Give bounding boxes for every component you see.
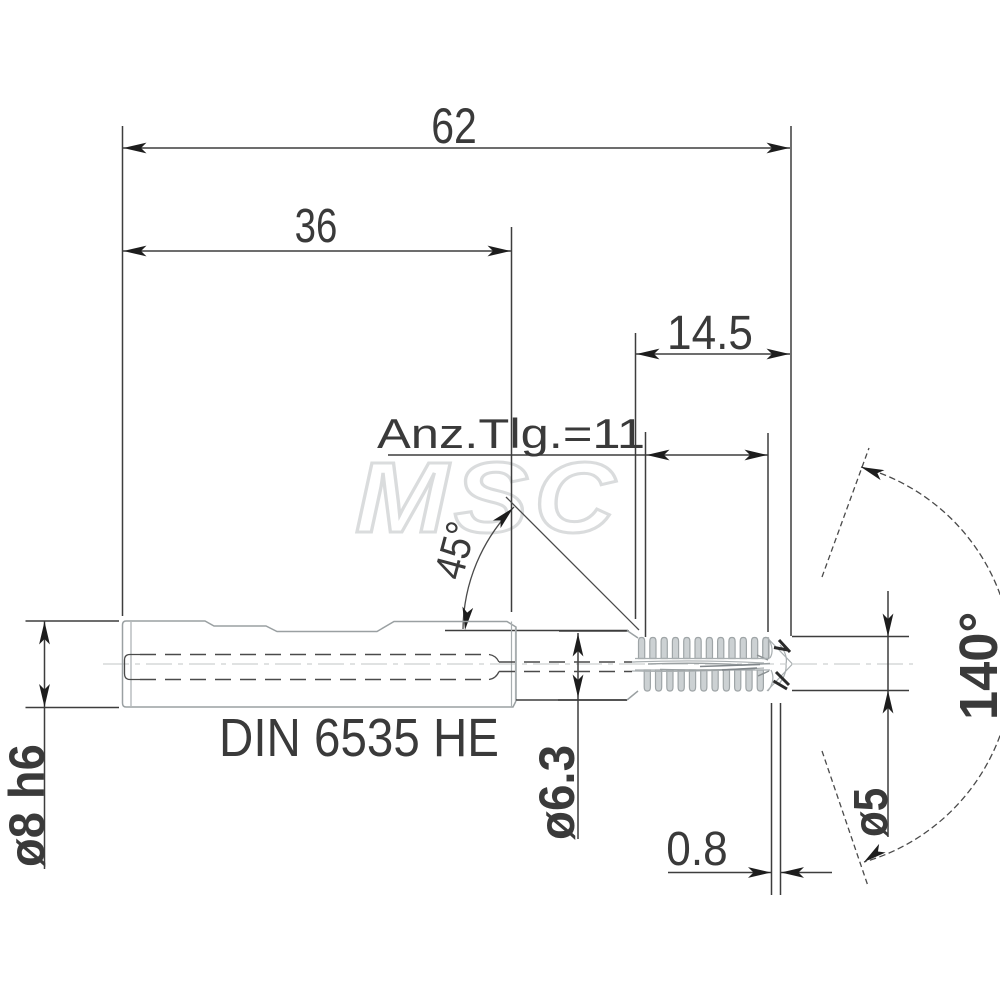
svg-text:140°: 140°	[949, 612, 1000, 720]
dia6.3 extension bottom (also neck bottom edge)	[558, 699, 627, 701]
tip cone bottom edge	[767, 665, 792, 692]
arrowhead 140 arc top	[859, 462, 884, 480]
dim 0.8 line left segment	[668, 872, 772, 874]
dim 62 extension line right	[790, 126, 792, 636]
dim 36 line	[123, 250, 511, 252]
dia5 extension top	[792, 636, 909, 638]
svg-text:36: 36	[295, 200, 338, 253]
dia5 dimension line	[887, 591, 889, 837]
tip cone top edge	[767, 638, 792, 664]
arrowhead dia5 bottom pointing up	[883, 691, 894, 714]
thread root bottom line	[635, 669, 770, 671]
svg-text:ø6.3: ø6.3	[530, 745, 585, 840]
svg-text:ø5: ø5	[843, 788, 897, 837]
thread mid darker detail	[648, 663, 770, 670]
coolant hole taper	[489, 655, 499, 680]
thread teeth top row	[639, 638, 770, 659]
thread start chamfer top	[627, 631, 638, 639]
svg-text:0.8: 0.8	[666, 821, 727, 875]
Anz.Tlg.=11 dimension line with underline	[388, 454, 768, 456]
Anz.Tlg.=11 extension line left	[645, 432, 647, 637]
thread teeth bottom row	[644, 670, 763, 691]
centerline	[103, 663, 913, 665]
dim 14.5 line	[636, 353, 790, 355]
arrowhead dia6.3 down	[573, 675, 584, 698]
45deg reference line and neck top edge	[445, 630, 628, 632]
neck bottom edge	[516, 699, 627, 701]
45deg arc	[463, 507, 514, 629]
tip cross marks	[774, 640, 791, 689]
shank neck relief lines	[512, 622, 516, 708]
dia8h6 dimension line	[44, 621, 46, 869]
arrowhead dia8 down	[39, 684, 50, 707]
140deg arc	[861, 467, 1000, 862]
arrowhead dia5 top pointing down	[883, 614, 894, 637]
shank outline	[123, 621, 517, 707]
svg-text:DIN 6535 HE: DIN 6535 HE	[219, 708, 499, 768]
dim 36 extension line right	[511, 227, 513, 612]
dia8h6 extension bottom	[26, 707, 120, 709]
coolant channel dashed top	[499, 661, 632, 663]
arrowhead 62 right	[767, 143, 790, 154]
thread root top line	[635, 658, 768, 660]
dia8h6 extension top	[26, 620, 120, 622]
thread last partial tooth top	[763, 638, 769, 659]
dim 0.8 line right segment	[781, 872, 833, 874]
arrowhead dia8 up	[39, 622, 50, 645]
dim 0.8 extension line right	[780, 703, 782, 895]
shank end chamfer line	[130, 622, 132, 706]
dim 62 extension line left	[122, 126, 124, 616]
arrowhead 45 arc bottom	[460, 607, 474, 631]
140deg leg top	[822, 448, 869, 577]
arrowhead 14.5 right	[767, 349, 790, 360]
arrowhead 0.8 pointing right	[748, 867, 771, 878]
arrowhead 14.5 left	[637, 349, 660, 360]
coolant channel dashed bottom	[499, 671, 632, 673]
dim 0.8 extension line left	[771, 703, 773, 895]
arrowhead 0.8 pointing left	[781, 867, 804, 878]
dia6.3 dimension line	[577, 633, 579, 839]
svg-text:MSC: MSC	[355, 443, 621, 554]
Anz.Tlg.=11 extension line right	[767, 433, 769, 632]
svg-text:ø8 h6: ø8 h6	[0, 744, 55, 867]
140deg leg bottom	[822, 751, 868, 886]
arrowhead 36 right	[488, 246, 511, 257]
svg-text:62: 62	[431, 98, 477, 154]
coolant hole dashed top	[140, 654, 489, 656]
dia5 extension bottom	[792, 690, 909, 692]
tip crown gray details	[768, 638, 786, 692]
arrowhead dia6.3 up	[573, 634, 584, 657]
dim 62 line	[123, 147, 790, 149]
thread mid flute lines	[632, 661, 764, 671]
arrowhead 62 left	[124, 143, 147, 154]
arrowhead Anz left	[647, 450, 670, 461]
arrowhead 140 arc bottom	[861, 844, 886, 866]
dia6.3 extension top	[559, 630, 629, 632]
svg-text:Anz.Tlg.=11: Anz.Tlg.=11	[377, 410, 645, 457]
arrowhead 45 arc top	[493, 504, 517, 528]
45deg chamfer leader diagonal	[506, 497, 639, 630]
dim 14.5 extension line left	[635, 333, 637, 619]
svg-text:14.5: 14.5	[667, 305, 753, 359]
thread start chamfer bottom	[627, 691, 638, 700]
thread runout marks	[757, 655, 769, 676]
arrowhead 36 left	[124, 246, 147, 257]
arrowhead Anz right	[745, 450, 768, 461]
coolant hole left cap	[125, 655, 141, 680]
coolant hole dashed bottom	[140, 679, 489, 681]
